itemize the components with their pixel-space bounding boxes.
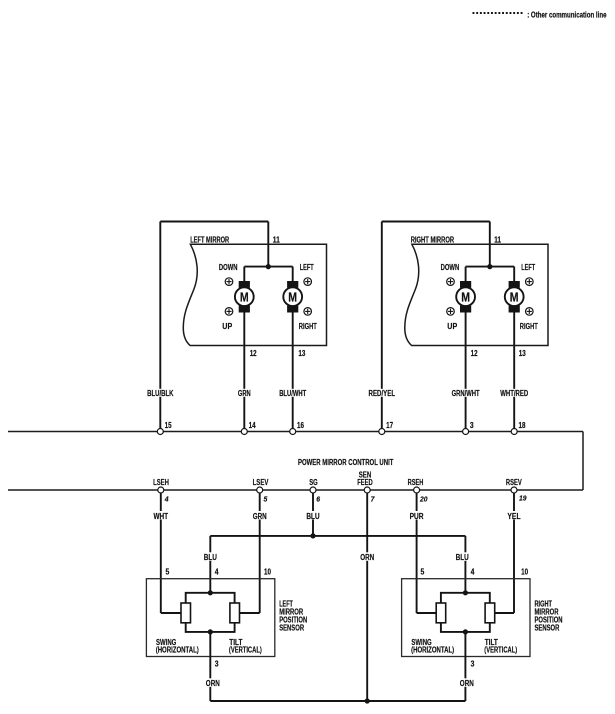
svg-text:YEL: YEL: [507, 512, 520, 521]
node: BLU split junction: [310, 533, 315, 538]
wire: WHT vertical (pin 4 to left sensor pin 5): [160, 490, 162, 613]
wire: left mirror feed top horizontal: [160, 221, 268, 223]
wire label: BLU (right branch): [455, 552, 471, 562]
wire label: RED/YEL: [367, 389, 397, 398]
svg-text:(HORIZONTAL): (HORIZONTAL): [156, 645, 199, 654]
pin 14 terminal: [241, 429, 247, 435]
node: left sensor bottom junction: [208, 629, 213, 634]
svg-text:FEED: FEED: [357, 478, 373, 487]
svg-text:WHT/RED: WHT/RED: [500, 389, 528, 398]
svg-text:SG: SG: [309, 478, 318, 487]
wire label: BLU/BLK: [145, 389, 175, 398]
wire: right sensor bottom bridge: [441, 623, 490, 632]
svg-text:(VERTICAL): (VERTICAL): [229, 645, 262, 654]
wire: left sensor pin5 lead to swing pot: [161, 612, 181, 614]
wire: left sensor pin10 lead to tilt pot: [240, 612, 260, 614]
wire: right mirror feed top horizontal: [382, 221, 490, 223]
motor M4: right mirror left/right: [505, 281, 524, 313]
wire: WHT/RED vertical (right motor to pin 18): [513, 311, 515, 432]
adjust symbol: left mirror lower-right plus: [304, 308, 312, 316]
wire label: ORN (left sensor): [205, 678, 222, 688]
adjust symbol: right mirror upper-right plus: [526, 278, 534, 286]
svg-text:3: 3: [470, 421, 474, 430]
svg-text:WHT: WHT: [154, 512, 169, 521]
motor M1: left mirror up/down: [235, 281, 254, 313]
wire label: ORN (right sensor): [459, 678, 476, 688]
svg-text:19: 19: [519, 494, 527, 503]
pin 17 terminal: [379, 429, 385, 435]
wire: right sensor pin5 lead to swing pot: [417, 612, 437, 614]
wire: BLU left branch drop to left sensor pin 4: [209, 536, 211, 593]
wire label: BLU (left branch): [203, 552, 219, 562]
wire: BLU/BLK vertical (pin 15 to top): [159, 222, 161, 432]
svg-text:14: 14: [249, 421, 256, 430]
node: left mirror motor common junction: [266, 264, 271, 269]
svg-text:UP: UP: [222, 322, 232, 331]
pin 4 terminal: [158, 487, 164, 493]
svg-text:12: 12: [250, 349, 257, 358]
svg-text:11: 11: [494, 235, 501, 244]
wire: ORN vertical (pin 7 to bottom rail): [366, 490, 368, 701]
svg-text:RIGHT: RIGHT: [520, 322, 538, 331]
svg-text:GRN: GRN: [253, 512, 267, 521]
svg-text:10: 10: [521, 568, 528, 577]
svg-text:DOWN: DOWN: [441, 263, 460, 272]
svg-text:M: M: [510, 289, 519, 304]
svg-text:4: 4: [215, 568, 219, 577]
wire label: GRN (sensor): [252, 511, 269, 521]
svg-text:3: 3: [215, 660, 219, 669]
wire: ORN bottom rail: [210, 700, 465, 702]
wire: left sensor top bridge: [186, 593, 235, 603]
svg-text:LSEH: LSEH: [153, 478, 169, 487]
wire: left mirror left/right motor drop: [292, 267, 294, 282]
svg-text:ORN: ORN: [460, 679, 474, 688]
wire label: PUR: [409, 511, 426, 521]
svg-text:11: 11: [273, 235, 280, 244]
legend: other communication line (dotted sample): [473, 12, 523, 14]
svg-text:M: M: [461, 289, 470, 304]
wire: BLU vertical (pin 6 down to split): [312, 490, 314, 536]
pin 18 terminal: [511, 429, 517, 435]
svg-text:20: 20: [419, 495, 428, 504]
wire label: ORN (pin 7): [359, 552, 376, 562]
svg-text:(VERTICAL): (VERTICAL): [484, 645, 517, 654]
bus: power mirror control unit upper connector row: [8, 431, 583, 433]
box: LEFT MIRROR POSITION SENSOR: [146, 579, 274, 657]
motor M2: left mirror left/right: [283, 281, 302, 313]
svg-text:RED/YEL: RED/YEL: [369, 389, 396, 398]
svg-text:LSEV: LSEV: [253, 478, 269, 487]
wire: right mirror up/down motor drop: [465, 267, 467, 282]
wire: right sensor pin 3 drop: [464, 632, 466, 701]
wire: right mirror left/right motor drop: [513, 267, 515, 282]
adjust symbol: left mirror lower-left plus: [225, 308, 233, 316]
svg-text:12: 12: [471, 349, 478, 358]
svg-text:ORN: ORN: [360, 553, 374, 562]
adjust symbol: right mirror upper-left plus: [447, 278, 455, 286]
pin 15 terminal: [157, 429, 163, 435]
svg-text:: Other communication line: : Other communication line: [527, 10, 607, 19]
bus: power mirror control unit lower connector row: [8, 489, 583, 491]
svg-text:BLU/WHT: BLU/WHT: [279, 389, 306, 398]
svg-text:GRN: GRN: [238, 389, 251, 398]
wire: left sensor bottom bridge: [186, 623, 235, 632]
svg-text:LEFT: LEFT: [521, 263, 535, 272]
pin 3 terminal: [463, 429, 469, 435]
svg-text:BLU: BLU: [456, 553, 469, 562]
wire: left mirror motor common bar: [244, 266, 292, 268]
node: ORN rail junction: [365, 698, 370, 703]
svg-text:RSEV: RSEV: [506, 478, 522, 487]
wire label: WHT/RED: [499, 389, 530, 398]
pin 7 terminal: [364, 487, 370, 493]
node: left sensor top junction: [208, 590, 213, 595]
box: RIGHT MIRROR POSITION SENSOR: [402, 579, 530, 657]
svg-text:M: M: [288, 289, 297, 304]
adjust symbol: left mirror upper-left plus: [225, 278, 233, 286]
wire: PUR vertical (pin 20 to right sensor pin 5): [416, 490, 418, 613]
svg-text:GRN/WHT: GRN/WHT: [452, 389, 480, 398]
svg-text:PUR: PUR: [410, 512, 424, 521]
box: RIGHT MIRROR enclosure: [405, 244, 548, 345]
wire: BLU right branch drop to right sensor pin 4: [464, 536, 466, 593]
svg-text:LEFT MIRROR: LEFT MIRROR: [190, 236, 229, 245]
svg-text:UP: UP: [447, 322, 457, 331]
svg-text:13: 13: [298, 349, 305, 358]
wire: RED/YEL vertical (pin 17 to top): [381, 222, 383, 432]
wire: GRN/WHT vertical (right motor to pin 3): [465, 311, 467, 432]
resistor: left sensor tilt potentiometer: [230, 603, 240, 623]
svg-text:RIGHT: RIGHT: [299, 322, 317, 331]
wire label: WHT: [153, 511, 170, 521]
svg-text:M: M: [240, 289, 249, 304]
pin 6 terminal: [310, 487, 316, 493]
node: right mirror motor common junction: [487, 264, 492, 269]
pin 19 terminal: [511, 487, 517, 493]
svg-text:SENSOR: SENSOR: [279, 624, 304, 633]
wire: YEL vertical (pin 19 to right sensor pin 10): [513, 490, 515, 613]
svg-text:SENSOR: SENSOR: [535, 624, 560, 633]
svg-text:4: 4: [471, 568, 475, 577]
resistor: right sensor swing potentiometer: [436, 603, 446, 623]
wire: right sensor top bridge: [441, 593, 490, 603]
resistor: left sensor swing potentiometer: [181, 603, 191, 623]
wire: right mirror motor common bar: [466, 266, 515, 268]
resistor: right sensor tilt potentiometer: [485, 603, 495, 623]
motor M3: right mirror up/down: [456, 281, 475, 313]
box: LEFT MIRROR enclosure: [183, 244, 326, 345]
pin 16 terminal: [290, 429, 296, 435]
adjust symbol: right mirror lower-right plus: [526, 308, 534, 316]
svg-text:13: 13: [519, 349, 526, 358]
svg-text:RIGHT MIRROR: RIGHT MIRROR: [411, 236, 455, 245]
wire: GRN vertical (pin 5 to left sensor pin 10): [259, 490, 261, 613]
svg-text:POWER MIRROR CONTROL UNIT: POWER MIRROR CONTROL UNIT: [298, 458, 393, 467]
wire label: BLU/WHT: [278, 389, 308, 398]
wire label: YEL: [507, 511, 523, 521]
svg-text:3: 3: [471, 660, 475, 669]
svg-text:BLU: BLU: [204, 553, 217, 562]
wire: GRN vertical (left motor to pin 14): [243, 311, 245, 432]
svg-text:5: 5: [166, 568, 170, 577]
svg-text:BLU/BLK: BLU/BLK: [147, 389, 173, 398]
wire: right side link between connector rows: [582, 432, 584, 491]
wire label: GRN/WHT: [451, 389, 482, 398]
svg-text:10: 10: [264, 568, 271, 577]
svg-text:BLU: BLU: [306, 512, 319, 521]
svg-text:4: 4: [164, 495, 169, 504]
node: right sensor bottom junction: [463, 629, 468, 634]
wire: BLU/WHT vertical (right motor to pin 16): [292, 311, 294, 432]
wire: right mirror pin 11 drop: [489, 222, 491, 267]
wire: BLU horizontal distribution: [210, 535, 465, 537]
wire: left sensor pin 3 drop: [209, 632, 211, 701]
svg-text:16: 16: [297, 421, 304, 430]
adjust symbol: right mirror lower-left plus: [447, 308, 455, 316]
node: right sensor top junction: [463, 590, 468, 595]
svg-text:LEFT: LEFT: [300, 263, 314, 272]
svg-text:ORN: ORN: [206, 679, 220, 688]
adjust symbol: left mirror upper-right plus: [304, 278, 312, 286]
svg-text:5: 5: [421, 568, 425, 577]
wire label: GRN: [237, 389, 252, 398]
svg-text:17: 17: [386, 421, 393, 430]
pin 5 terminal: [257, 487, 263, 493]
svg-text:15: 15: [165, 421, 172, 430]
svg-text:DOWN: DOWN: [219, 263, 238, 272]
svg-text:18: 18: [519, 421, 526, 430]
pin 20 terminal: [414, 487, 420, 493]
svg-text:RSEH: RSEH: [408, 478, 424, 487]
wire: right sensor pin10 lead to tilt pot: [495, 612, 514, 614]
wire: left mirror pin 11 drop: [267, 222, 269, 267]
wire label: BLU (pin 6): [306, 511, 322, 521]
wire: left mirror up/down motor drop: [243, 267, 245, 282]
svg-text:(HORIZONTAL): (HORIZONTAL): [411, 645, 454, 654]
